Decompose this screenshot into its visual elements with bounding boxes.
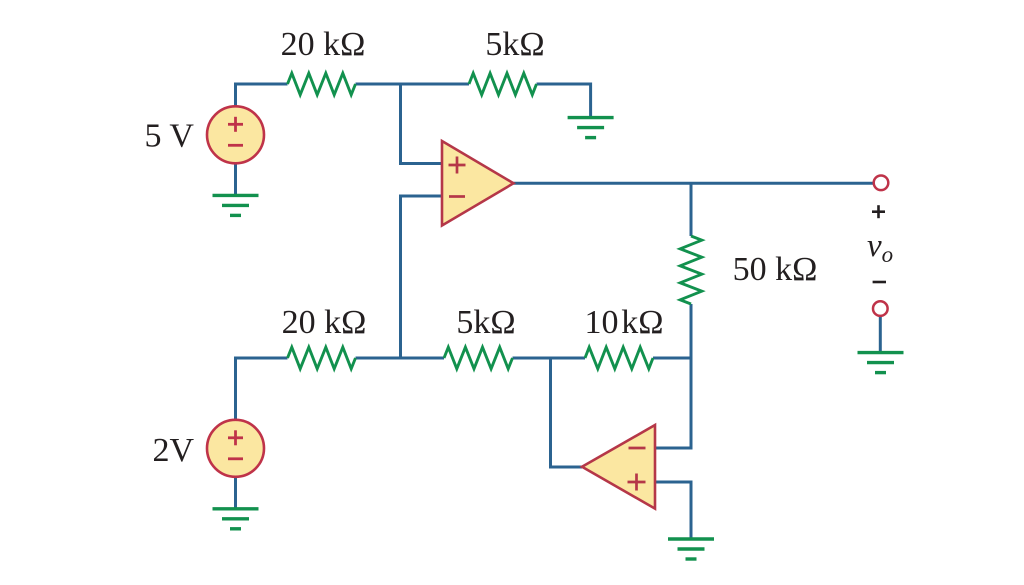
- wire output terminal - to ground: [879, 316, 882, 353]
- resistor R3 20kohm (bottom left): [288, 347, 356, 369]
- voltage source V2 2V: [207, 420, 264, 477]
- svg-text:20 kΩ: 20 kΩ: [281, 26, 366, 63]
- ground below V2: [213, 509, 259, 529]
- label + (output polarity): [872, 205, 885, 218]
- resistor R4 5kohm (bottom middle): [444, 347, 513, 369]
- op-amp U2 (points left): [582, 425, 655, 509]
- wire output junction down through 50k to U2 - input: [690, 183, 693, 236]
- op-amp U1 (points right): [442, 141, 514, 226]
- svg-text:20 kΩ: 20 kΩ: [282, 304, 367, 341]
- wire U2 - input stub: [655, 447, 693, 450]
- ground below output terminal: [858, 353, 904, 373]
- svg-text:5kΩ: 5kΩ: [456, 304, 515, 341]
- resistor R1 20kohm (top left): [288, 73, 356, 95]
- ground right of R2: [568, 118, 614, 138]
- svg-text:vo: vo: [867, 228, 893, 267]
- wire top rail: V1 top to 20k, 20k to 5k, 5k to ground drop: [236, 84, 288, 107]
- terminal - (bottom output): [873, 301, 888, 316]
- ground below V1: [213, 195, 259, 215]
- wire node B drop to U2 output (apex): [551, 358, 583, 467]
- wire U2 + input stub down to ground: [655, 482, 691, 539]
- ground below U2 + input: [668, 539, 714, 559]
- svg-text:10 kΩ: 10 kΩ: [584, 304, 663, 341]
- resistor R6 50kohm (vertical): [680, 236, 702, 304]
- wire node A drop to U1 + input: [401, 83, 443, 164]
- wire V1 bottom to ground: [234, 163, 237, 195]
- svg-text:5 V: 5 V: [145, 118, 195, 155]
- resistor R2 5kohm (top right): [469, 73, 537, 95]
- svg-text:5kΩ: 5kΩ: [485, 26, 544, 63]
- terminal + (top output): [874, 176, 889, 191]
- wire U1 output to terminal: [514, 182, 874, 185]
- wire U1 - input to long vertical down to bottom rail: [401, 196, 443, 358]
- wire bottom rail: V2 top, 20k, 5k, 10k, to 50k column: [236, 358, 288, 420]
- resistor R5 10kohm (bottom right): [585, 347, 653, 369]
- svg-text:50 kΩ: 50 kΩ: [733, 251, 818, 288]
- voltage source V1 5V: [207, 106, 264, 163]
- svg-text:2V: 2V: [152, 432, 194, 469]
- wire V2 bottom to ground: [234, 477, 237, 509]
- label - (output polarity): [873, 281, 886, 284]
